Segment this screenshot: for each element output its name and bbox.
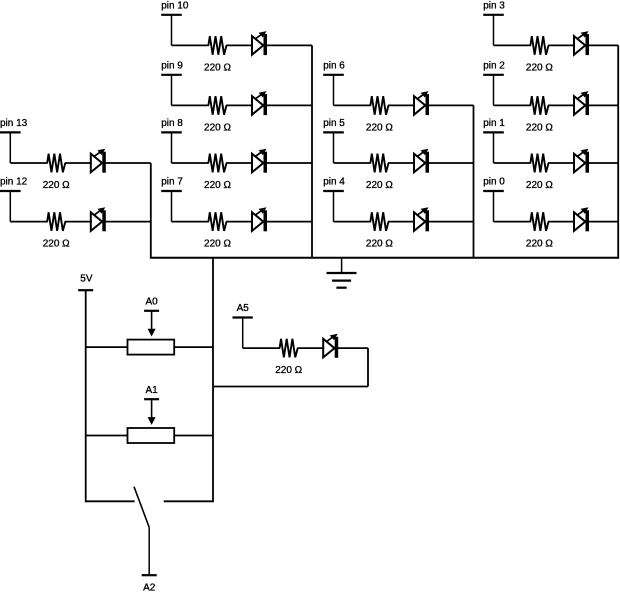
wire cathode bus x=150.8	[150, 163, 152, 258]
LED D-A5	[323, 334, 338, 358]
wire resistor to LED pin10	[226, 44, 253, 46]
svg-text:pin 3: pin 3	[483, 1, 505, 12]
svg-text:A2: A2	[143, 583, 156, 593]
wire pin3 to resistor	[494, 44, 531, 46]
wire LED pin12 to bus	[106, 221, 151, 223]
resistor R-pin5 220 Ω	[366, 154, 393, 191]
LED D-pin12	[91, 207, 106, 231]
wire A5 loop down	[367, 348, 369, 386]
wire LED pin9 to bus	[267, 104, 312, 106]
LED D-pin2	[574, 91, 589, 115]
svg-text:pin 9: pin 9	[161, 61, 183, 72]
wire resistor to LED A5	[297, 347, 324, 349]
svg-text:220 Ω: 220 Ω	[526, 180, 553, 191]
wire resistor to LED pin7	[226, 221, 253, 223]
terminal pin 10	[161, 1, 189, 46]
wire resistor to LED pin4	[388, 221, 415, 223]
wire LED pin10 to bus	[267, 44, 312, 46]
wire resistor to LED pin8	[226, 162, 253, 164]
5V supply terminal	[78, 274, 93, 291]
wire switch to A2	[148, 527, 150, 575]
wire resistor to LED pin13	[65, 162, 92, 164]
svg-text:pin 0: pin 0	[483, 177, 505, 188]
wire LED pin0 to bus	[589, 221, 619, 223]
resistor R-pin1 220 Ω	[526, 154, 553, 191]
wire pin12 to resistor	[10, 221, 47, 223]
resistor R-pin4 220 Ω	[366, 212, 393, 249]
svg-text:A5: A5	[237, 303, 250, 314]
wire resistor to LED pin1	[548, 162, 575, 164]
wire LED pin6 to bus	[429, 104, 474, 106]
svg-text:pin 8: pin 8	[161, 118, 183, 129]
resistor R-pin10 220 Ω	[204, 36, 231, 73]
terminal A5	[233, 303, 253, 348]
resistor R-pin6 220 Ω	[366, 96, 393, 133]
switch A2 blade	[134, 487, 149, 528]
svg-text:220 Ω: 220 Ω	[366, 180, 393, 191]
wire LED A5 right	[338, 347, 368, 349]
svg-text:pin 10: pin 10	[161, 1, 189, 12]
LED D-pin0	[574, 207, 589, 231]
svg-text:pin 1: pin 1	[483, 118, 505, 129]
wire resistor to LED pin2	[548, 104, 575, 106]
wire LED pin4 to bus	[429, 221, 474, 223]
svg-text:A1: A1	[145, 385, 158, 396]
svg-text:pin 2: pin 2	[483, 61, 505, 72]
svg-text:A0: A0	[145, 297, 158, 308]
svg-text:220 Ω: 220 Ω	[526, 122, 553, 133]
svg-text:220 Ω: 220 Ω	[275, 365, 302, 376]
wire LED pin5 to bus	[429, 162, 474, 164]
resistor R-pin12 220 Ω	[43, 212, 70, 249]
LED D-pin7	[252, 207, 267, 231]
resistor R-pin13 220 Ω	[43, 154, 70, 191]
wire ground bus (bottom horizontal)	[150, 257, 619, 259]
wire LED pin1 to bus	[589, 162, 619, 164]
wire A5 loop to x=213	[213, 386, 368, 388]
resistor R-A5 220 Ω	[275, 339, 302, 376]
wire pin0 to resistor	[494, 221, 531, 223]
LED D-pin5	[414, 149, 429, 173]
svg-text:pin 12: pin 12	[0, 177, 28, 188]
svg-text:220 Ω: 220 Ω	[526, 62, 553, 73]
terminal pin 12	[0, 177, 28, 222]
wire pin13 to resistor	[10, 162, 47, 164]
terminal pin 3	[483, 1, 505, 46]
svg-text:220 Ω: 220 Ω	[526, 239, 553, 250]
wire pin5 to resistor	[334, 162, 371, 164]
svg-text:220 Ω: 220 Ω	[204, 239, 231, 250]
potentiometer A1 body	[128, 428, 175, 443]
terminal pin 5	[323, 118, 345, 163]
svg-text:220 Ω: 220 Ω	[43, 239, 70, 250]
terminal pin 4	[323, 177, 345, 222]
wire pin6 to resistor	[334, 104, 371, 106]
terminal pin 7	[161, 177, 183, 222]
wire switch right	[164, 500, 213, 502]
LED D-pin8	[252, 149, 267, 173]
svg-text:220 Ω: 220 Ω	[366, 239, 393, 250]
terminal A0	[144, 297, 159, 311]
resistor R-pin0 220 Ω	[526, 212, 553, 249]
wire resistor to LED pin3	[548, 44, 575, 46]
terminal pin 6	[323, 61, 345, 106]
resistor R-pin3 220 Ω	[526, 36, 553, 73]
wire resistor to LED pin5	[388, 162, 415, 164]
svg-text:220 Ω: 220 Ω	[204, 122, 231, 133]
resistor R-pin9 220 Ω	[204, 96, 231, 133]
wire resistor to LED pin9	[226, 104, 253, 106]
terminal pin 8	[161, 118, 183, 163]
wire pin1 to resistor	[494, 162, 531, 164]
terminal pin 9	[161, 61, 183, 106]
LED D-pin9	[252, 91, 267, 115]
LED D-pin3	[574, 31, 589, 55]
wire LED pin13 to bus	[106, 162, 151, 164]
wire bus to lower section (x=213)	[212, 258, 214, 503]
svg-text:pin 13: pin 13	[0, 118, 28, 129]
LED D-pin1	[574, 149, 589, 173]
wire 5V rail (left vertical)	[85, 290, 87, 502]
terminal pin 2	[483, 61, 505, 106]
wire pin9 to resistor	[172, 104, 209, 106]
svg-text:220 Ω: 220 Ω	[366, 122, 393, 133]
wire LED pin7 to bus	[267, 221, 312, 223]
wire A1 to x=213	[174, 435, 213, 437]
LED D-pin6	[414, 91, 429, 115]
wire pin4 to resistor	[334, 221, 371, 223]
wiper arrow A1	[148, 399, 156, 425]
wire pin7 to resistor	[172, 221, 209, 223]
wire cathode bus x=618.2	[617, 45, 619, 257]
wire pin8 to resistor	[172, 162, 209, 164]
wire resistor to LED pin0	[548, 221, 575, 223]
svg-text:pin 7: pin 7	[161, 177, 183, 188]
wire LED pin8 to bus	[267, 162, 312, 164]
svg-text:pin 6: pin 6	[323, 61, 345, 72]
wire resistor to LED pin12	[65, 221, 92, 223]
potentiometer A0 body	[128, 340, 175, 355]
svg-text:220 Ω: 220 Ω	[204, 62, 231, 73]
LED D-pin4	[414, 207, 429, 231]
svg-text:5V: 5V	[80, 274, 93, 285]
LED D-pin10	[252, 31, 267, 55]
svg-text:220 Ω: 220 Ω	[204, 180, 231, 191]
terminal pin 13	[0, 118, 28, 163]
terminal A1	[144, 385, 159, 399]
svg-text:220 Ω: 220 Ω	[43, 180, 70, 191]
wire LED pin2 to bus	[589, 104, 619, 106]
wire 5V to A1	[86, 435, 128, 437]
terminal A2	[142, 575, 157, 593]
wire cathode bus x=473.5	[473, 105, 475, 257]
wire resistor to LED pin6	[388, 104, 415, 106]
svg-text:pin 4: pin 4	[323, 177, 345, 188]
wire 5V to A0	[86, 346, 128, 348]
wire cathode bus x=312	[311, 45, 313, 257]
wiper arrow A0	[148, 311, 156, 337]
wire A5 to resistor	[243, 347, 280, 349]
wire LED pin3 to bus	[589, 44, 619, 46]
resistor R-pin2 220 Ω	[526, 96, 553, 133]
wire pin2 to resistor	[494, 104, 531, 106]
resistor R-pin8 220 Ω	[204, 154, 231, 191]
wire switch left	[86, 500, 135, 502]
wire pin10 to resistor	[172, 44, 209, 46]
resistor R-pin7 220 Ω	[204, 212, 231, 249]
LED D-pin13	[91, 149, 106, 173]
terminal pin 0	[483, 177, 505, 222]
ground	[327, 258, 357, 288]
wire A0 to x=213	[174, 346, 213, 348]
svg-text:pin 5: pin 5	[323, 118, 345, 129]
terminal pin 1	[483, 118, 505, 163]
